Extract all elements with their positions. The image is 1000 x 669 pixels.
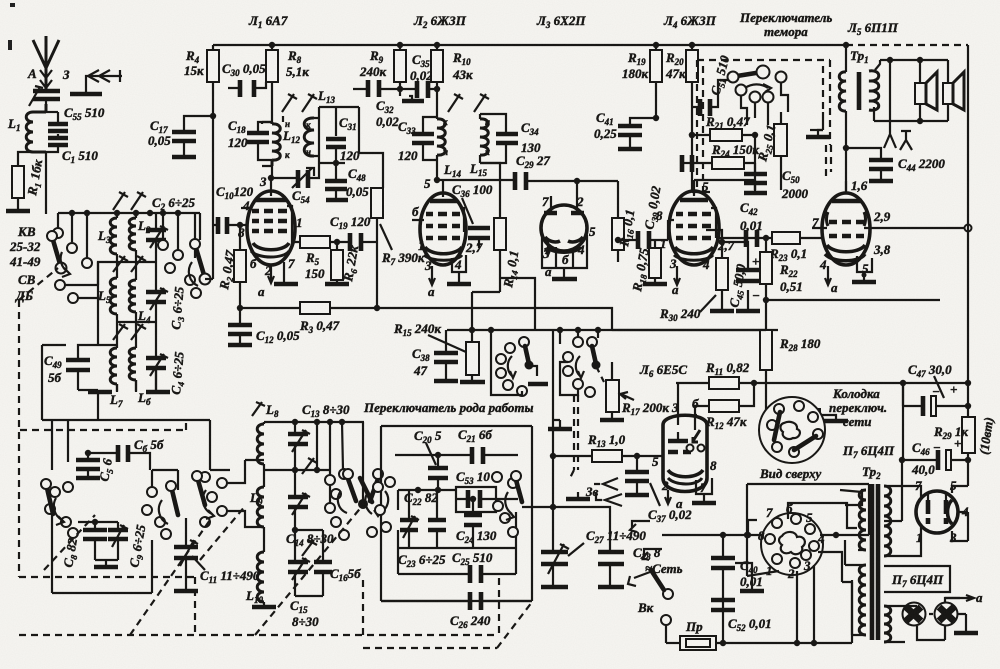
ground C40: [735, 563, 764, 591]
right switch stack: [158, 213, 211, 298]
switch Vk: [628, 570, 673, 643]
wire R22 to R28 bus: [763, 297, 940, 415]
top supply bus: [213, 44, 846, 46]
capacitor C48: [308, 163, 348, 200]
transformer Tp2 core: [872, 484, 878, 640]
tone switch contacts: [728, 66, 787, 103]
resistor R9: [394, 45, 406, 89]
wire tube L1 pin1 to R5: [292, 226, 300, 242]
label C36 100 with pointer: [452, 182, 493, 224]
lamp arrow a: [945, 590, 983, 605]
dashed inner boundary: [20, 420, 186, 430]
tube L1 (6A7) envelope: [247, 191, 295, 265]
tube L2 cathode arrow: [429, 266, 435, 285]
ground mid: [548, 420, 572, 429]
tube L6 (6E5C) envelope: [663, 415, 707, 491]
capacitor C50: [744, 163, 767, 193]
wire L5 plate to screen bus: [869, 225, 972, 232]
socket pins top view: [767, 401, 823, 457]
wire antenna down: [45, 100, 47, 214]
C53 box: [456, 487, 496, 512]
resistor R16: [612, 181, 624, 262]
pickup antenna symbols: [884, 60, 912, 150]
socket outer wiring: [744, 484, 869, 582]
mode switch wafer B frame: [560, 330, 598, 395]
osc switch right stack: [317, 422, 388, 540]
tube L2 pin4 box and ground: [447, 255, 471, 284]
resistor R22: [760, 235, 772, 300]
tube L5 grids: [812, 222, 869, 236]
label R30 240 with pointer: [659, 295, 716, 323]
junction L4 plate: [719, 239, 725, 245]
capacitor C37: [625, 456, 649, 495]
trimmer cap row3: [146, 343, 168, 392]
resistor R13: [553, 450, 664, 462]
tube L3 pin labels top: [542, 194, 584, 209]
dashed link to R17: [596, 366, 604, 382]
ground under R6: [325, 282, 349, 287]
band coil box top wire: [58, 210, 200, 216]
volume bus wire: [447, 327, 778, 333]
capacitor C46 electrolytic: [899, 450, 971, 470]
mode box left switch: [360, 477, 395, 537]
resistor R30: [706, 230, 734, 311]
Tp2 primary winding lower: [845, 540, 866, 635]
power socket lower wiring: [716, 565, 852, 643]
IF1 coil L12: [262, 116, 283, 166]
tube L4 cathode arc: [675, 247, 713, 254]
IF1 secondary coil L13: [304, 107, 319, 163]
resistor R19: [650, 45, 662, 118]
switch KV stem left: [47, 213, 92, 277]
tube L1 grids: [241, 206, 292, 231]
mid wire row: [398, 487, 518, 499]
resistor R7: [371, 188, 383, 308]
capacitor C31: [319, 107, 383, 188]
trimmer C9: [95, 522, 128, 560]
coil L2: [129, 213, 136, 262]
wire socket to Tp2: [840, 490, 862, 505]
IF2 primary coil L14: [437, 117, 448, 160]
wire L15 to R14: [480, 163, 500, 218]
tube L1 cathode arcs: [253, 243, 289, 250]
capacitor C35 with ground: [397, 81, 437, 101]
Tp2 lamp winding: [884, 606, 905, 642]
tube L6 cathode arcs: [668, 470, 703, 477]
capacitor C40: [711, 535, 735, 643]
tube L1 pin labels: [238, 174, 303, 299]
capacitor C8: [78, 519, 107, 560]
label C37 0.02 with pointer: [648, 483, 692, 524]
variable capacitor C11: [174, 518, 198, 591]
wire bus to jack area: [552, 330, 554, 552]
dashed jack linkage: [570, 395, 578, 478]
coil L4: [129, 262, 136, 322]
tube L1 anode bar: [256, 198, 286, 203]
row1-row2 rail: [98, 262, 156, 285]
resistor R27: [763, 409, 848, 421]
capacitor C34: [480, 114, 518, 163]
tube L2 cathode arc: [425, 247, 462, 254]
bus junction dots: [269, 42, 849, 48]
wires L6 grid anode: [678, 383, 695, 415]
osc row1 bottom wire: [264, 467, 330, 473]
capacitor C55: [46, 112, 68, 138]
tube L5 top lead: [845, 181, 847, 193]
resistor R1: [12, 166, 24, 198]
capacitor C45 electrolytic: [722, 242, 760, 311]
capacitor C28: [598, 552, 624, 587]
tube L6 grid bars: [668, 410, 691, 452]
bl switch right contacts: [142, 470, 178, 539]
coil L10: [252, 550, 276, 607]
tone switch wiring: [741, 82, 788, 125]
lower dashed boundary 2: [130, 520, 532, 648]
capacitor C38: [434, 330, 458, 381]
speaker 1: [915, 72, 937, 110]
resistor R14: [494, 218, 506, 292]
wire L1 to R1: [18, 152, 33, 166]
output transformer Tp1: [839, 45, 880, 193]
tube L6 eye contacts: [687, 415, 705, 452]
trimmer arrows row2: [113, 256, 146, 272]
trimmer cap C15: [288, 527, 310, 596]
trimmer arrow mid: [302, 458, 317, 474]
trimmer cap row2: [146, 262, 168, 322]
trimmer C54: [268, 168, 314, 188]
resistor R17: [600, 362, 624, 420]
label C47 30.0 with pointer: [908, 362, 957, 399]
capacitor C51: [692, 80, 729, 116]
IF1 frame and C18: [247, 122, 272, 178]
IF2 trimmer arrows: [448, 94, 489, 112]
tube L5 anode bar: [832, 199, 862, 204]
corner specks: [10, 3, 15, 7]
rectifier tube L7: [916, 491, 958, 533]
capacitor C41: [618, 115, 659, 149]
tube L3 diode plates: [544, 181, 584, 213]
resistor R21: [689, 129, 755, 141]
tube L4 (6ZH3P) envelope: [669, 191, 719, 265]
main B+ bus lower: [754, 382, 968, 384]
L7 pin labels: [915, 478, 969, 545]
label C27 11-490 with arrow: [568, 528, 646, 556]
Tp2 primary winding upper: [858, 490, 866, 550]
resistor R8: [266, 45, 278, 116]
IF2 frame C33: [412, 117, 437, 180]
socket top view circle: [759, 397, 825, 463]
trimmer cap C14: [288, 470, 310, 530]
capacitor C32: [353, 80, 400, 97]
ground under R1: [6, 198, 30, 211]
label R17 200k with arrow: [620, 392, 669, 417]
IF transformer L12/L13 trimmer arrows: [282, 94, 317, 112]
capacitor C30: [228, 80, 266, 97]
label R7 390k with pointer: [380, 224, 425, 267]
B+ line to C47: [902, 383, 904, 460]
ground right of tone box: [806, 112, 830, 137]
tube L2 (6ZH3P) envelope: [420, 193, 466, 265]
resistor R23: [760, 232, 822, 244]
speaker 2: [943, 72, 964, 110]
bottom-left box top wire: [42, 419, 210, 421]
speaker wiring box: [874, 57, 948, 124]
capacitor C19: [350, 233, 377, 251]
resistor R29: [962, 383, 975, 460]
tube L5 cathode arrow: [825, 266, 831, 285]
tube L2 grids: [412, 208, 464, 238]
capacitor C24: [464, 496, 482, 548]
ground C8: [94, 560, 118, 567]
power socket circle: [761, 513, 823, 575]
trimmer arrow row3: [302, 540, 317, 556]
B+ right junction: [965, 380, 971, 386]
top bus right corner down: [846, 44, 968, 46]
capacitor C12: [228, 305, 252, 345]
resistor R25: [774, 112, 787, 190]
ground under tube L1 pin7: [274, 262, 298, 284]
capacitor C6: [85, 445, 150, 470]
mode switch wafer B contacts: [563, 337, 601, 397]
label R15 240k with pointer: [393, 321, 466, 352]
mode switch wafer A frame: [491, 330, 522, 395]
resistor R11: [676, 377, 754, 389]
tube L5 pin5 box and ground: [852, 256, 876, 282]
trimmer arrows row1: [113, 192, 146, 210]
capacitor C16: [295, 530, 332, 596]
tube L1 cathode arrow pin2: [268, 265, 274, 283]
left dashed boundary vertical: [18, 300, 20, 577]
tube L6 pin7 box ground: [692, 478, 716, 503]
wire L4 plate top: [694, 180, 755, 192]
net wire: [662, 520, 757, 538]
bottom connect row3: [97, 390, 99, 420]
resistor R5: [300, 236, 330, 248]
capacitor C39: [615, 231, 668, 249]
capacitor C44: [843, 145, 893, 181]
tube L6 pin labels: [652, 396, 717, 511]
L7 plates: [928, 493, 952, 524]
coil L1: [26, 104, 46, 152]
capacitor C5: [76, 453, 100, 478]
bl switch left contacts: [41, 420, 78, 538]
dashed diagonal long: [255, 505, 363, 635]
resistor R18: [643, 240, 667, 284]
L7 wiring: [902, 460, 968, 556]
Tp2 heater winding rect: [884, 566, 950, 592]
inner top wire: [395, 454, 518, 456]
coil L9: [257, 470, 264, 550]
resistor R3: [300, 302, 330, 314]
wire L14 bottom to detector bus: [424, 176, 513, 191]
tube L2 anode bar: [430, 199, 458, 204]
mode cap box outline: [381, 426, 532, 601]
capacitor C20 with pointer: [426, 443, 448, 490]
wire from R28 bus to L6 bus: [618, 329, 766, 331]
label L8 with trimmer: [252, 402, 279, 419]
tube L2 top lead: [442, 180, 444, 197]
capacitor C10: [213, 116, 248, 279]
dashed diagonals linkage left: [44, 515, 95, 570]
resistor R6: [331, 242, 343, 283]
left dashed boundary diag top: [19, 268, 58, 300]
capacitor C29: [515, 172, 618, 190]
antenna A: [33, 36, 59, 90]
resistor R10: [431, 45, 443, 117]
trimmer C23: [400, 490, 419, 548]
Tp2 secondary HT winding: [884, 486, 905, 556]
row2-row3 rail: [117, 322, 156, 343]
tone switch rotor lever: [737, 72, 762, 76]
fuse Pr: [666, 619, 726, 650]
antenna trimmer capacitor: [29, 86, 60, 106]
coil L6: [129, 343, 136, 392]
phones jack 3B: [566, 478, 622, 506]
tube L4 pin labels: [656, 179, 735, 297]
capacitor C25: [398, 548, 516, 583]
dashed box tone switch: [697, 60, 831, 192]
mode box right switch: [492, 471, 522, 537]
capacitor C24a: [680, 132, 695, 172]
capacitor C26: [381, 592, 532, 610]
capacitor C36: [465, 228, 490, 255]
resistor R12: [693, 380, 757, 412]
capacitor C47 electrolytic: [900, 380, 971, 416]
inner bottom wire: [398, 490, 516, 548]
osc switch left stack: [192, 420, 264, 527]
tube L5 pin labels: [812, 178, 891, 295]
detector output wire: [469, 278, 535, 342]
trimmer cap C2: [146, 213, 168, 262]
grounds under row3: [78, 368, 170, 392]
power socket pins: [758, 501, 825, 581]
resistor R4: [207, 45, 219, 118]
tube L3 pin frame: [542, 235, 587, 279]
coil L7: [98, 343, 117, 392]
label C11 11-490 with arrow: [192, 556, 260, 585]
wire to C27 C28: [522, 453, 610, 550]
wire R5 to C19: [330, 239, 348, 245]
mode switch wafer A contacts: [496, 337, 548, 396]
tube L1 top cap lead: [270, 178, 272, 196]
tube L4 cathode arrow: [674, 266, 680, 285]
left box vertical rail: [42, 345, 66, 420]
lamp ground: [954, 614, 978, 633]
bottom dashed boundary: [19, 577, 499, 635]
resistor R20: [686, 45, 698, 192]
coil L8: [257, 422, 264, 470]
osc box top wire: [264, 419, 364, 425]
trimmer cap C13: [288, 422, 310, 470]
tube L4 grids: [668, 208, 716, 240]
paper speckle overlay: [0, 0, 1, 1]
coil L5: [110, 262, 117, 322]
capacitor C49: [66, 262, 98, 390]
switch SV row circles: [55, 280, 98, 303]
dashed diagonal to mid: [200, 505, 246, 560]
tube L5 cathode arcs: [827, 245, 865, 252]
variable capacitor C27: [541, 544, 569, 587]
capacitor C22: [428, 490, 446, 548]
tube L3 arrow pin3: [545, 240, 551, 255]
AVC bus wire: [240, 305, 380, 311]
resistor R24: [692, 135, 755, 190]
earth arrow symbol: [70, 70, 122, 94]
tube L3 pin labels bottom: [542, 224, 596, 279]
capacitor C42: [716, 230, 760, 247]
bl box bottom wire: [52, 514, 152, 593]
resistor R2: [234, 222, 246, 308]
dial lamps: [903, 598, 967, 640]
trimmer arrows row3: [113, 324, 146, 340]
resistor R28: [760, 330, 772, 370]
tube L5 beam plates: [827, 212, 866, 226]
junction tone: [752, 132, 758, 138]
tube L3 (6X2P) envelope: [541, 205, 587, 251]
capacitor C17: [172, 113, 216, 157]
capacitor C1: [46, 138, 68, 152]
capacitor C52: [711, 600, 735, 610]
main AVC wire: [374, 308, 618, 330]
tube L4 anode bar: [680, 198, 708, 203]
tube L6 arrow: [665, 490, 671, 504]
tube L5 (6P1P) envelope: [822, 193, 870, 265]
coil L3: [110, 213, 117, 262]
tube L4 top lead: [692, 192, 710, 196]
tube L3 cathode arcs: [545, 237, 583, 252]
grid wire from band box to tube L1: [0, 0, 1, 1]
wire right stack to C10: [205, 278, 213, 280]
tube L2 pin labels: [412, 204, 462, 299]
label ~Set with arrow: [630, 521, 683, 576]
resistor R15: [460, 342, 485, 382]
IF2 secondary coil L15: [480, 114, 490, 163]
capacitor C21: [472, 447, 483, 464]
